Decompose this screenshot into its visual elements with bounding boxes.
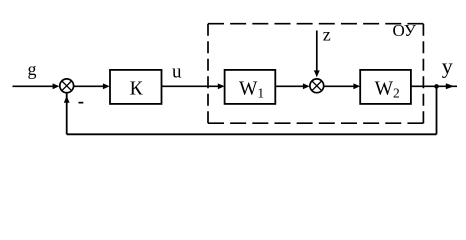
wire S2 to W2: [324, 85, 356, 87]
summing junction S2: [310, 79, 324, 93]
wire feedback down: [436, 86, 438, 134]
arrowhead into K: [103, 83, 110, 89]
wire W1 to S2: [275, 85, 305, 87]
wire z input: [316, 31, 318, 75]
wire S1 to K: [74, 85, 105, 87]
arrowhead z into S2: [314, 70, 320, 77]
summing junction S1: [60, 79, 74, 93]
arrowhead into summing junction S2: [303, 83, 310, 89]
svg-text:y: y: [442, 53, 453, 78]
arrowhead into W2: [353, 83, 360, 89]
arrowhead into W1: [218, 83, 225, 89]
svg-text:g: g: [28, 59, 37, 79]
svg-text:ОУ: ОУ: [393, 21, 417, 40]
wire feedback up to S1: [66, 93, 68, 134]
dashed box ОУ (plant boundary): [208, 24, 423, 124]
node junction dot: [434, 84, 439, 89]
svg-text:z: z: [323, 25, 331, 45]
arrowhead output y: [446, 83, 454, 89]
wire feedback bottom: [67, 133, 437, 135]
arrowhead into summing junction S1: [53, 83, 60, 89]
wire K to W1: [162, 85, 221, 87]
wire g input: [13, 85, 57, 87]
svg-text:К: К: [130, 79, 144, 100]
block W1: [225, 70, 276, 104]
arrowhead feedback into S1: [64, 96, 70, 103]
label minus: [79, 102, 84, 104]
block W2: [360, 70, 411, 104]
wire W2 to output y: [411, 85, 457, 87]
svg-text:u: u: [172, 61, 182, 82]
block K: [110, 70, 162, 104]
